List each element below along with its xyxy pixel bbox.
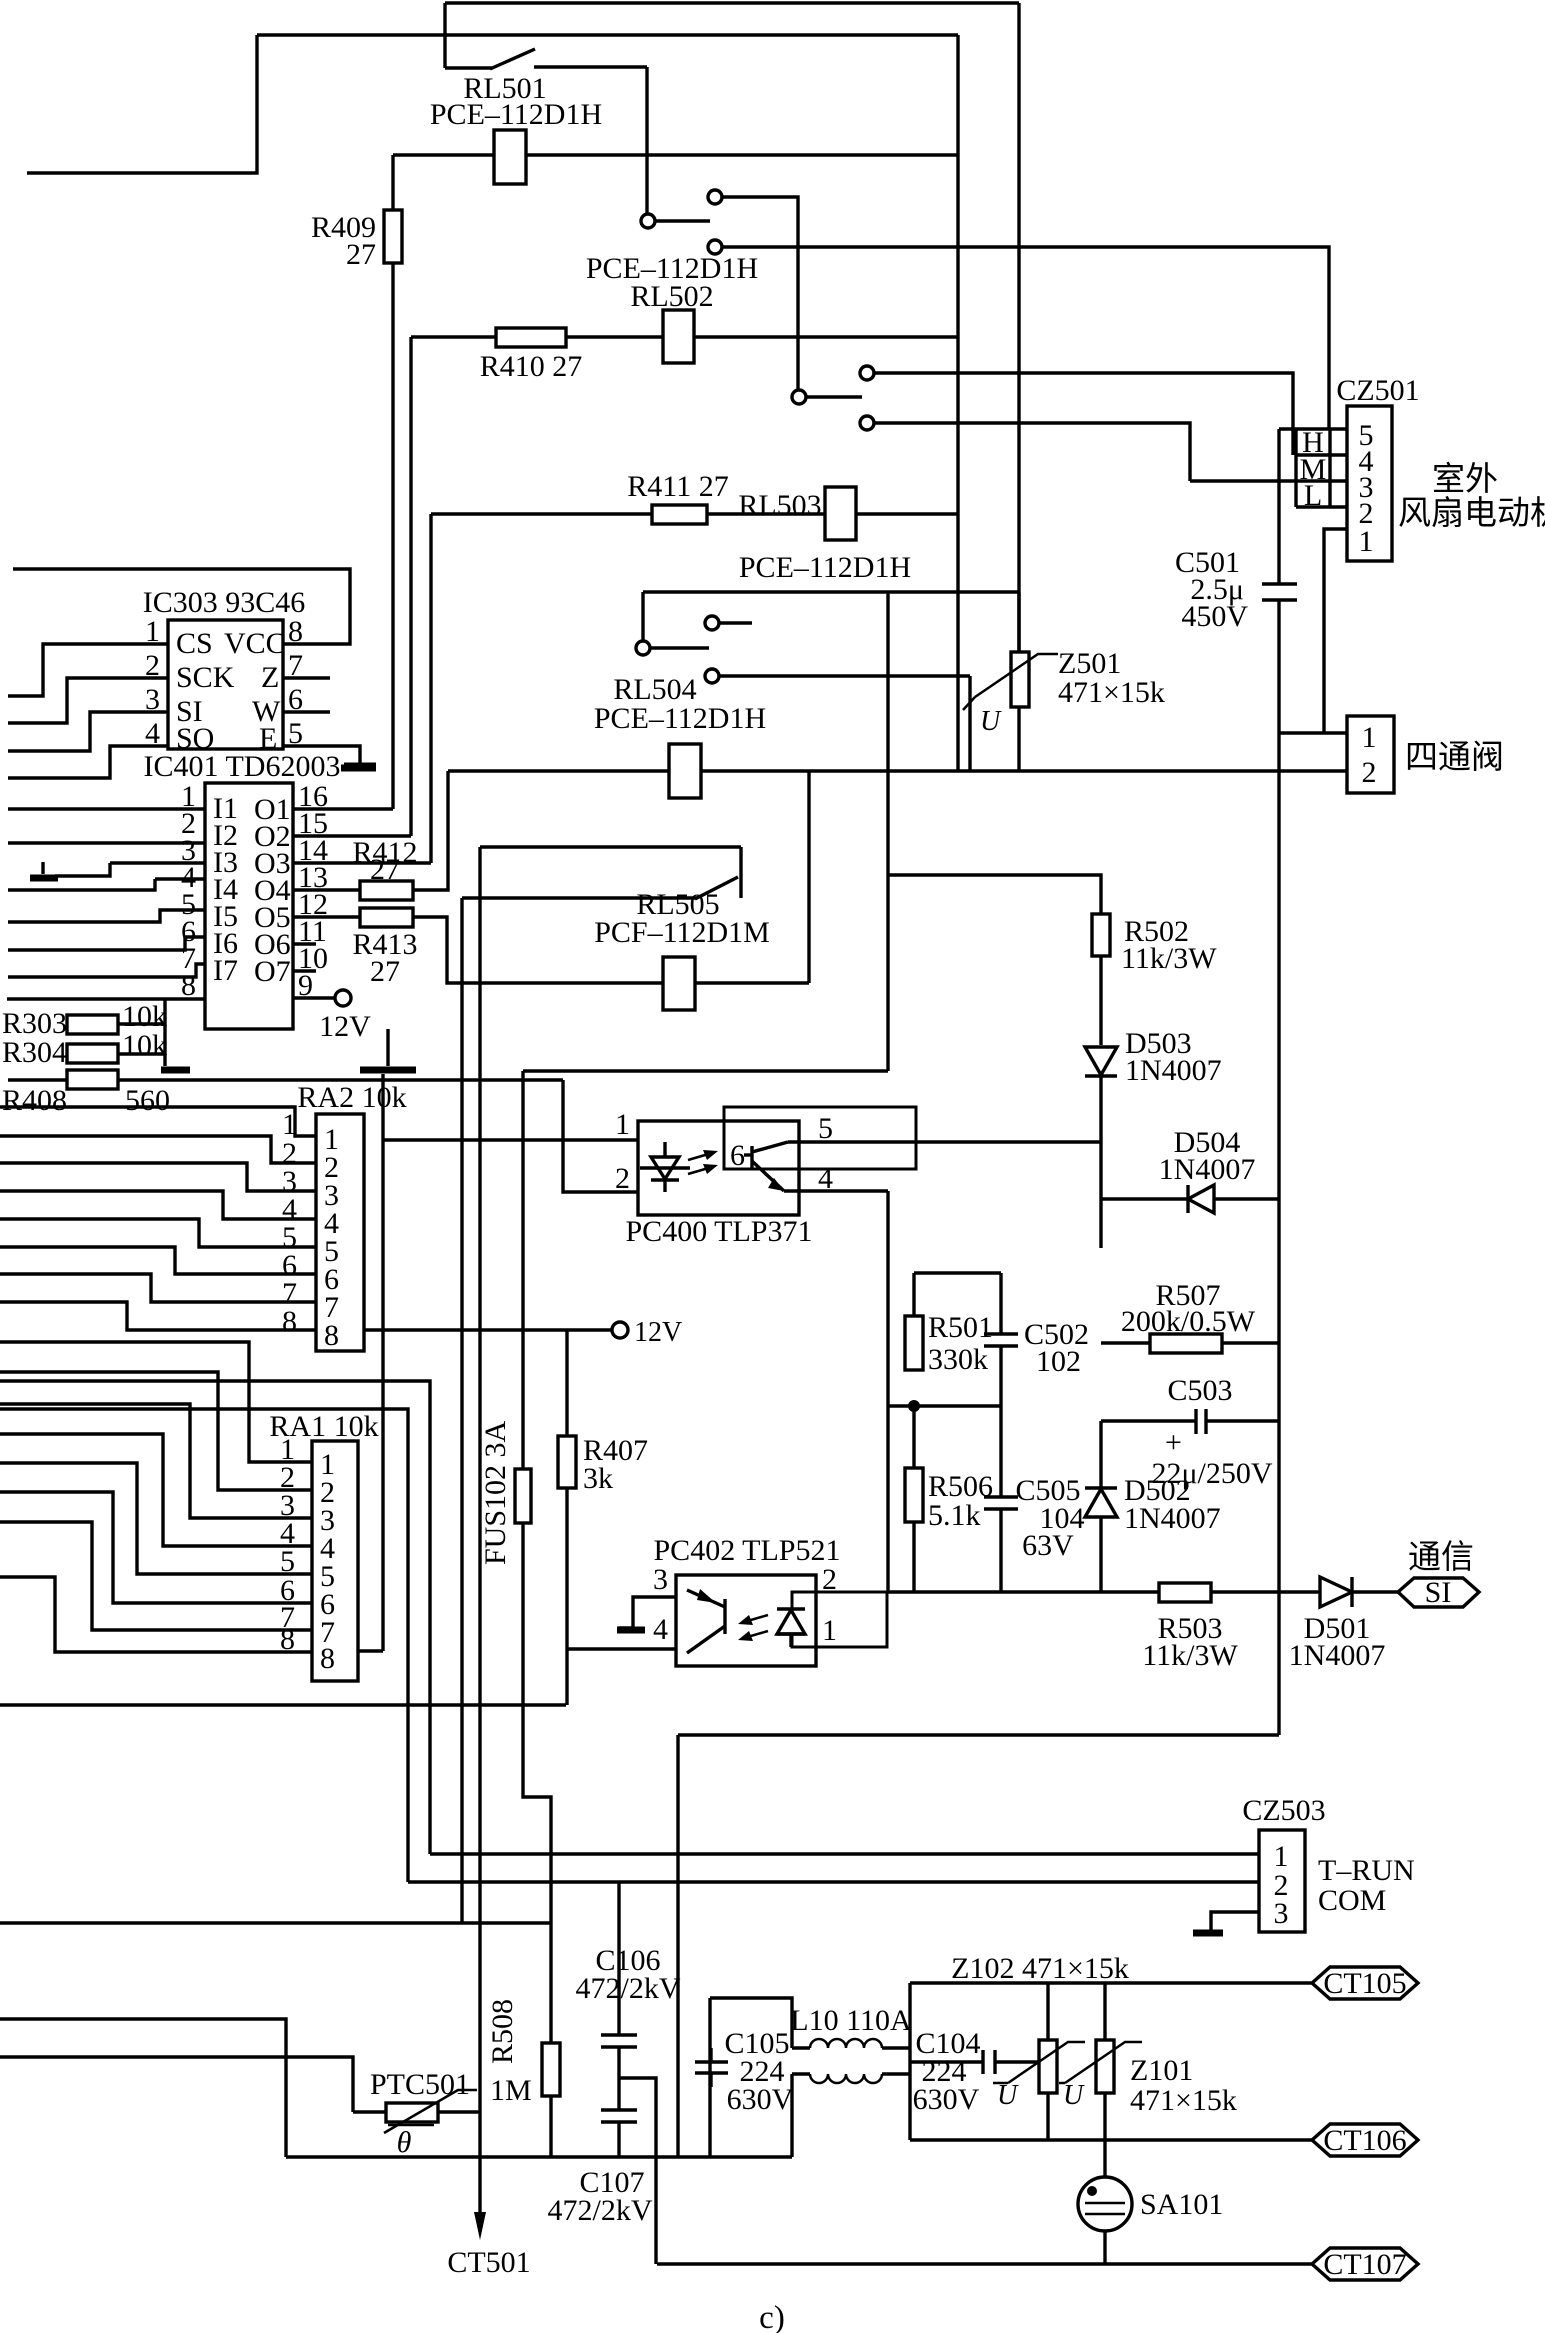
wire Z101 to SA101 [1103, 2140, 1106, 2177]
wire O5 to R413 [293, 915, 360, 918]
svg-text:5: 5 [818, 1112, 833, 1145]
wire RL504 common from live rail [641, 592, 644, 641]
wire R303 chain vertical [163, 999, 166, 1066]
svg-text:COM: COM [1318, 1884, 1386, 1917]
svg-text:2: 2 [615, 1162, 630, 1195]
wire RL503 coil row [431, 512, 652, 515]
varistor Z501 [1011, 652, 1029, 707]
svg-text:C503: C503 [1167, 1374, 1232, 1407]
wire SA101 to CT107 rail [1103, 2231, 1106, 2264]
svg-text:VCC: VCC [224, 627, 286, 660]
wire O1 to R409 [293, 807, 393, 810]
diode D502 [1085, 1489, 1117, 1517]
wire CZ503 pin2 line [408, 1880, 1259, 1883]
wire Z501 bottom [1017, 707, 1020, 771]
svg-text:RL503: RL503 [738, 489, 821, 522]
wire R501 top [912, 1273, 915, 1316]
wire line A to x430 [0, 1381, 430, 1854]
diode D504 [1101, 1197, 1279, 1200]
svg-text:12V: 12V [319, 1010, 371, 1043]
wire PC400 pin1 feed vertical [381, 1074, 384, 1140]
optocoupler PC400 transistor box [724, 1107, 916, 1169]
svg-text:1: 1 [1362, 721, 1377, 754]
svg-text:U: U [980, 706, 1002, 737]
connector CZ501 [1347, 406, 1392, 561]
wire x678 drop [676, 1735, 679, 2157]
capacitor C503 [1101, 1419, 1196, 1422]
svg-text:R501: R501 [928, 1311, 993, 1344]
wire CS pin1 feed [8, 644, 168, 696]
wire PC400 pin4 [784, 1189, 888, 1192]
svg-text:27: 27 [346, 238, 376, 271]
wire top vertical left [443, 3, 446, 68]
svg-text:472/2kV: 472/2kV [576, 1972, 681, 2005]
wire O6 stub [293, 942, 316, 945]
wire R303 to chain [118, 1022, 165, 1025]
wire RA1 feed 5 [0, 1463, 312, 1574]
terminal CT105 hexagon [1312, 1967, 1418, 1999]
wire fuse bottom jog [523, 1523, 551, 2043]
IC U IC303 93C46 [168, 620, 283, 749]
wire RA1 pin8 out to x383 [358, 1649, 383, 1652]
relay coil RL502 [663, 310, 694, 363]
wire RL502 NC to L cell [874, 423, 1190, 481]
node RL501 NC contact [708, 240, 722, 254]
ground E [344, 763, 376, 770]
wire RA1 feed 2 [0, 1372, 312, 1490]
svg-text:8: 8 [288, 615, 303, 648]
fuse FUS102 [515, 1469, 531, 1523]
svg-text:1N4007: 1N4007 [1124, 1502, 1221, 1535]
wire O4 to R412 [293, 888, 360, 891]
wire x383 down to RA1 pin8 and bottom [381, 1140, 384, 1651]
wire CT501 arrow [478, 2112, 481, 2228]
relay coil RL505 [663, 957, 695, 1010]
svg-text:200k/0.5W: 200k/0.5W [1121, 1305, 1256, 1338]
wire RL501 moving contact drop [645, 67, 648, 214]
varistor Z501 diagonal [975, 654, 1058, 697]
capacitor C104 [910, 2060, 983, 2063]
svg-text:5.1k: 5.1k [928, 1499, 981, 1532]
svg-text:8: 8 [324, 1319, 339, 1352]
svg-text:1: 1 [822, 1614, 837, 1647]
wire I6 feed [8, 937, 205, 950]
inductor L10 upper winding [792, 2046, 810, 2049]
svg-text:450V: 450V [1181, 600, 1248, 633]
svg-text:PC400 TLP371: PC400 TLP371 [626, 1215, 813, 1248]
capacitor C106 [601, 2033, 637, 2036]
wire R409 vertical [391, 155, 394, 210]
svg-text:CT105: CT105 [1323, 1967, 1406, 2000]
terminal CT106 hexagon [1312, 2124, 1418, 2156]
svg-text:SCK: SCK [176, 661, 235, 694]
resistor R408 [67, 1070, 118, 1089]
wire top AC line [445, 1, 1019, 4]
svg-text:8: 8 [282, 1305, 297, 1338]
svg-text:PC402 TLP521: PC402 TLP521 [654, 1534, 841, 1567]
wire RL505 feed drop [460, 898, 463, 1923]
wire RA1 feed 3 [0, 1404, 312, 1518]
wire divider mid rail [888, 1404, 1001, 1407]
svg-text:CZ501: CZ501 [1336, 374, 1419, 407]
speed cell frame H M L [1277, 429, 1280, 481]
wire R412 out up to rail [413, 771, 448, 890]
wire RA2 feed 8 [0, 1302, 316, 1330]
resistor R507 [1101, 1341, 1150, 1344]
svg-text:5: 5 [288, 717, 303, 750]
transistor of PC402 [723, 1599, 726, 1634]
wire PC400 pin2 from R408 [563, 1080, 638, 1192]
wire C107 bottom [617, 2122, 620, 2157]
svg-text:CS: CS [176, 627, 213, 660]
node 12V terminal pin9 [335, 990, 351, 1006]
ground I3 [30, 875, 58, 882]
svg-text:PCE–112D1H: PCE–112D1H [739, 551, 911, 584]
svg-text:471×15k: 471×15k [1058, 676, 1165, 709]
wire RA2 feed 1 [0, 1107, 316, 1136]
relay coil RL504 [669, 744, 701, 798]
svg-text:R408: R408 [2, 1084, 67, 1117]
svg-text:U: U [1063, 2080, 1085, 2111]
wire I4 feed [8, 879, 155, 890]
wire x408 feed [0, 1409, 408, 1882]
wire CZ503 pin3 ground [1211, 1912, 1259, 1930]
wire bottom filter rail y2157 [286, 2155, 792, 2158]
svg-text:RL502: RL502 [630, 280, 713, 313]
svg-text:6: 6 [288, 683, 303, 716]
varistor Z101 [1103, 1983, 1106, 2040]
svg-text:L: L [1304, 479, 1322, 512]
svg-text:c): c) [759, 2300, 785, 2333]
wire RA2 feed 4 [0, 1191, 316, 1219]
svg-text:FUS102 3A: FUS102 3A [479, 1420, 512, 1565]
wire Z501 top [1017, 592, 1020, 652]
svg-text:风扇电动机: 风扇电动机 [1398, 495, 1545, 532]
svg-text:7: 7 [288, 649, 303, 682]
svg-text:U: U [997, 2080, 1019, 2111]
ground PC402 pin3 [617, 1627, 645, 1634]
node 12V terminal [612, 1322, 628, 1338]
node junction dot [908, 1400, 920, 1412]
ground R303 chain [161, 1067, 190, 1074]
wire I5 feed [8, 910, 205, 922]
wire R502 branch [888, 875, 1101, 914]
node RL501 common contact [641, 214, 655, 228]
svg-text:Z102 471×15k: Z102 471×15k [951, 1952, 1129, 1985]
wire SCK pin2 feed [8, 678, 168, 723]
resistor R411 [652, 505, 707, 524]
wire PC402 pin2 line to SI [887, 1590, 1159, 1593]
enclosure C105 box [710, 1998, 792, 2048]
resistor R501 [905, 1316, 923, 1370]
svg-text:330k: 330k [928, 1343, 988, 1376]
wire CT107 rail [657, 2262, 1312, 2265]
svg-text:+: + [1165, 1426, 1182, 1459]
svg-text:PCF–112D1M: PCF–112D1M [594, 916, 770, 949]
light arrows PC400 [688, 1153, 712, 1160]
relay coil RL501 [494, 130, 526, 184]
node RL501 NO contact [708, 190, 722, 204]
wire neutral rail y771 to valve pin2 [448, 769, 1347, 772]
svg-text:1N4007: 1N4007 [1125, 1054, 1222, 1087]
wire second top line [257, 33, 958, 36]
wire 12V branch to R407 [565, 1330, 568, 1436]
wire RL502 coil row [411, 335, 496, 338]
wire pin8 feed line [7, 997, 205, 1000]
svg-text:1: 1 [1359, 525, 1374, 558]
ground IC401 [360, 1067, 416, 1074]
terminal CT107 hexagon [1312, 2248, 1418, 2280]
svg-text:Z101: Z101 [1130, 2054, 1193, 2087]
wire y1071 rail to x888 [523, 1069, 888, 1072]
svg-text:630V: 630V [727, 2083, 794, 2116]
svg-text:SA101: SA101 [1140, 2188, 1223, 2221]
svg-text:102: 102 [1036, 1345, 1081, 1378]
wire x523 drop to fuse [521, 1071, 524, 1469]
wire R413 out to RL505 coil [413, 917, 663, 983]
svg-text:2: 2 [1362, 756, 1377, 789]
wire RL501 coil row [393, 153, 494, 156]
svg-text:11k/3W: 11k/3W [1121, 942, 1217, 975]
node RL504 NO contact [705, 616, 719, 630]
resistor R502 [1092, 914, 1110, 956]
wire I3 feed [110, 861, 205, 864]
wire RA1 feed 8 [0, 1577, 312, 1652]
wire RL502 NO to M cell [874, 373, 1293, 455]
theta symbol [388, 2124, 434, 2127]
resistor R413 [360, 908, 413, 927]
terminal SI hexagon [1398, 1578, 1479, 1607]
wire right bus x1279 [1277, 733, 1280, 1735]
svg-text:SI: SI [1425, 1576, 1452, 1609]
wire RA1 feed 1 [0, 1342, 312, 1462]
wire bus x1019 from top line to Z501 [1017, 3, 1020, 652]
pin 7 wire [283, 676, 330, 679]
node RL502 NC contact [860, 416, 874, 430]
diode D501 [1320, 1577, 1352, 1607]
svg-text:CT106: CT106 [1323, 2124, 1406, 2157]
varistor Z102a [1046, 1983, 1049, 2040]
wire R407 bottom to pin4 [565, 1488, 568, 1705]
resistor R304 [67, 1044, 118, 1063]
inductor L10 lower winding [792, 2072, 810, 2075]
wire RA1 feed 7 [0, 1522, 312, 1630]
svg-text:I7: I7 [213, 954, 238, 987]
wire RL501 NO to RL502 common [722, 197, 798, 390]
wire left lead line y2057 [0, 2057, 353, 2112]
wire R411 vertical to O3 [429, 514, 432, 863]
node RL504 common contact [636, 641, 650, 655]
wire x888 live drop [886, 592, 889, 1071]
svg-text:3k: 3k [583, 1462, 613, 1495]
wire O3 to R411 [293, 861, 431, 864]
surge arrester SA101 [1078, 2177, 1132, 2231]
svg-text:R411 27: R411 27 [627, 470, 728, 503]
capacitor C107 [601, 2108, 637, 2111]
transistor of PC400 [750, 1146, 753, 1168]
wire SO pin4 feed [8, 746, 168, 778]
svg-text:CT107: CT107 [1323, 2248, 1406, 2281]
pin 6 wire [283, 710, 330, 713]
svg-text:6: 6 [730, 1139, 745, 1172]
wire D503 down [1099, 1076, 1102, 1248]
wire mid tap to bottom rail [619, 2078, 656, 2264]
svg-text:4: 4 [653, 1613, 668, 1646]
resistor R503 [1159, 1583, 1211, 1602]
wire RA1 feed 6 [0, 1492, 312, 1603]
svg-text:471×15k: 471×15k [1130, 2084, 1237, 2117]
svg-text:PCE–112D1H: PCE–112D1H [594, 702, 766, 735]
LED of PC400 [663, 1142, 666, 1157]
wire RL505 coil feed from rail [807, 771, 810, 983]
wire RA2 feed 3 [0, 1163, 316, 1191]
relay coil RL503 [825, 487, 856, 540]
svg-text:R304: R304 [2, 1036, 67, 1069]
svg-text:IC303 93C46: IC303 93C46 [143, 586, 306, 619]
resistor R410 [496, 328, 566, 347]
capacitor C501 [1262, 582, 1297, 585]
wire RA2 feed 5 [0, 1219, 316, 1247]
thermistor PTC501 [386, 2103, 438, 2122]
svg-text:3: 3 [653, 1563, 668, 1596]
wire R506 top [912, 1406, 915, 1468]
resistor array RA2 [316, 1114, 364, 1351]
svg-text:3: 3 [1274, 1897, 1289, 1930]
ground near IC401 label [341, 765, 376, 772]
resistor R412 [360, 881, 413, 900]
svg-text:Z: Z [261, 661, 279, 694]
wire R408 long line to bus [118, 1078, 563, 1081]
svg-text:11k/3W: 11k/3W [1142, 1639, 1238, 1672]
wire VCC feed [13, 569, 350, 644]
svg-text:通信: 通信 [1408, 1539, 1474, 1576]
network box Z102 [908, 1983, 911, 2140]
wire right bus corner to bottom left rail [678, 1733, 1279, 1736]
svg-text:θ: θ [397, 2126, 412, 2159]
svg-text:CT501: CT501 [447, 2246, 530, 2279]
wire R408 left stub [8, 1078, 67, 1081]
wire RL504 NC line [719, 674, 970, 677]
wire I2 feed [8, 841, 205, 844]
wire SI pin3 feed [8, 712, 168, 751]
wire CZ503 pin1 line [430, 1852, 1259, 1855]
wire C106 C107 link [617, 2047, 620, 2110]
wire O2 to R410 [293, 834, 411, 837]
pin 5 wire E to ground [283, 746, 360, 764]
wire PTC row [353, 2110, 386, 2113]
wire R410 vertical to O2 [409, 337, 412, 836]
wire RL505 NO drop to bottom [478, 847, 481, 2112]
wire bus x958 from top line down [956, 35, 959, 770]
diode D503 [1085, 1047, 1117, 1075]
svg-text:L10 110A: L10 110A [790, 2004, 912, 2037]
wire CZ501 pin2 to valve node [1324, 529, 1347, 733]
svg-text:1M: 1M [490, 2074, 532, 2107]
wire live rail y592 [643, 590, 1019, 593]
svg-text:RA2 10k: RA2 10k [297, 1081, 406, 1114]
optocoupler PC402 led box [792, 1592, 887, 1647]
capacitor C105 [695, 2060, 728, 2063]
wire O7 stub [293, 969, 316, 972]
resistor R506 [905, 1468, 923, 1522]
resistor R407 [558, 1436, 576, 1488]
capacitor C505 [999, 1406, 1002, 1497]
wire RA2 feed 2 [0, 1136, 316, 1163]
wire PC400 pin1 feed horizontal [383, 1138, 638, 1141]
svg-text:R508: R508 [486, 1999, 519, 2064]
connector CZ503 [1259, 1830, 1305, 1932]
wire x888 divider drop [886, 1192, 889, 1592]
wire RA2 pin8 to 12V [364, 1328, 612, 1331]
svg-text:12V: 12V [634, 1317, 682, 1348]
wire to valve pin1 [1279, 731, 1347, 734]
ground CZ503 [1193, 1930, 1223, 1937]
wire I1 feed [8, 807, 205, 810]
svg-text:PCE–112D1H: PCE–112D1H [430, 98, 602, 131]
wire RA1 feed 4 [0, 1434, 312, 1546]
svg-text:8: 8 [320, 1642, 335, 1675]
resistor R409 [384, 210, 402, 263]
svg-text:8: 8 [181, 969, 196, 1002]
wire y1705 line [0, 1703, 566, 1706]
wire CT105 rail [910, 1981, 1312, 1984]
resistor array RA1 [312, 1441, 358, 1681]
svg-text:560: 560 [125, 1084, 170, 1117]
wire left lead line y2019 [0, 2019, 286, 2157]
svg-text:四通阀: 四通阀 [1405, 740, 1504, 776]
svg-text:27: 27 [370, 853, 400, 886]
svg-text:室外: 室外 [1432, 461, 1498, 498]
resistor R508 [542, 2043, 560, 2096]
wire R502 to D503 [1099, 956, 1102, 1045]
wire R506 bottom [912, 1522, 915, 1593]
wire R304 to chain [118, 1052, 165, 1055]
resistor R303 [67, 1015, 118, 1034]
svg-text:IC401 TD62003: IC401 TD62003 [144, 750, 341, 783]
wire left step to second line [27, 35, 257, 173]
LED of PC402 [789, 1609, 792, 1647]
wire lower winding left drop [790, 2074, 793, 2157]
wire RL505 contact drop [739, 847, 742, 898]
svg-text:O7: O7 [254, 955, 291, 988]
svg-text:R410 27: R410 27 [480, 350, 583, 383]
wire PC402 pin3 to ground [618, 1597, 676, 1628]
relay contact RL505 blade [462, 896, 697, 899]
svg-text:2: 2 [822, 1563, 837, 1596]
svg-text:1: 1 [615, 1108, 630, 1141]
node RL504 NC contact [705, 669, 719, 683]
wire RL505 NO top edge [480, 845, 741, 848]
wire C106 top [617, 1882, 620, 2035]
wire R501 top rail to C502 [914, 1271, 1001, 1274]
optocoupler PC402 outer box [676, 1575, 816, 1666]
light arrows PC402 [744, 1615, 768, 1622]
wire RL504 NC drop [968, 676, 971, 771]
wire y1923 line [0, 1921, 551, 1924]
IC401 ground stem [386, 1029, 389, 1066]
wire C501 branch [1277, 481, 1280, 584]
wire pin9 to 12V [293, 996, 335, 999]
wire RA2 feed 6 [0, 1247, 316, 1274]
relay contact RL501 switch [445, 66, 492, 69]
wire RL501 NC to H cell [722, 247, 1329, 429]
connector four-way valve [1347, 716, 1394, 793]
wire PC400 pin5 [788, 1140, 1102, 1143]
svg-text:1N4007: 1N4007 [1159, 1153, 1256, 1186]
svg-text:1N4007: 1N4007 [1289, 1639, 1386, 1672]
optocoupler PC400 outer box [638, 1121, 799, 1215]
wire CT106 rail [910, 2138, 1312, 2141]
